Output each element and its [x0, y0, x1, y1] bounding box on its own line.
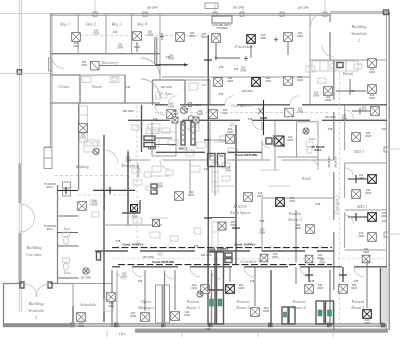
corridor1 door arc c: [290, 96, 299, 105]
to roof exh lav4: [311, 145, 325, 152]
svg-text:CFM: CFM: [351, 286, 358, 290]
svg-text:100 CFM: 100 CFM: [146, 6, 158, 10]
svg-text:CFM: CFM: [93, 32, 100, 36]
svg-text:4"Ø: 4"Ø: [316, 202, 321, 206]
exterior wall right: [386, 12, 389, 330]
svg-text:4"Ø: 4"Ø: [354, 279, 359, 283]
svg-text:MD 3: MD 3: [356, 204, 368, 209]
damper sym c: [274, 37, 278, 42]
duct cross tick a: [204, 59, 212, 61]
vestibule3 post a: [20, 282, 24, 288]
extra cfm r2 b: [122, 109, 134, 113]
wall x215 small: [214, 162, 216, 196]
clutter line f: [260, 169, 280, 171]
rooftop unit box: [205, 3, 218, 9]
break branch tick: [349, 79, 351, 88]
size note 3: [170, 143, 175, 147]
grid tick bottom c: [257, 330, 259, 337]
svg-text:CFM: CFM: [381, 214, 388, 218]
waiting label: [75, 164, 89, 169]
c3 door arc c: [244, 267, 254, 277]
cabinet pair d: [156, 285, 170, 323]
svg-text:CFM: CFM: [369, 70, 376, 74]
duct arrow right: [155, 63, 189, 66]
c3 door arc e: [354, 267, 364, 277]
wall x190 small: [189, 160, 191, 196]
svg-text:Manager: Manager: [137, 305, 154, 310]
size note 10: [310, 279, 315, 283]
dark wall reception west: [103, 135, 105, 322]
duct note 4ø a: [113, 30, 118, 34]
svg-text:CFM: CFM: [117, 46, 124, 50]
duct stub left b: [57, 232, 78, 234]
diffuser om top: [107, 293, 116, 302]
clutter equip o: [194, 228, 201, 234]
toilet center: [156, 92, 167, 99]
schedule east wall: [111, 270, 113, 327]
corridor2 dashes: [338, 62, 340, 330]
c4 room walls: [185, 80, 210, 105]
partition pr2 pr4: [270, 270, 272, 327]
svg-text:EXH.: EXH.: [314, 148, 321, 152]
clos label: [134, 210, 140, 214]
tstat corr1: [188, 103, 202, 107]
duct md branch: [348, 175, 367, 183]
cfm r2b: [265, 76, 272, 83]
column top 4: [240, 12, 244, 16]
dark box 266: [266, 138, 272, 144]
vert text ra: [327, 156, 331, 168]
md partition c: [345, 249, 387, 251]
vestibule3 east wall: [72, 284, 74, 328]
corridor2 east wall: [344, 105, 346, 248]
diffuser waiting lower: [78, 202, 87, 211]
clutter equip i: [152, 166, 161, 172]
svg-text:CFM: CFM: [184, 313, 191, 317]
cfm ma: [188, 190, 195, 197]
cfm bay4: [147, 30, 154, 37]
building corridor label: [26, 245, 42, 257]
recep scatter a: [132, 168, 140, 173]
diffuser work: [306, 225, 315, 234]
svg-text:4"Ø: 4"Ø: [204, 167, 209, 171]
size note 11: [354, 279, 359, 283]
pr4 label: [291, 299, 306, 310]
building corridor east wall: [57, 185, 59, 283]
svg-text:4"Ø: 4"Ø: [206, 327, 211, 331]
c4 fixture: [189, 83, 207, 90]
xtr cfm k: [121, 272, 128, 279]
svg-text:4"Ø: 4"Ø: [219, 92, 224, 96]
supply text vertical: [136, 162, 140, 177]
md partition b: [345, 209, 387, 211]
nurse walls: [80, 75, 125, 103]
cfm mdrc: [381, 211, 388, 218]
svg-text:100 CFM: 100 CFM: [297, 6, 309, 10]
clutter equip s: [90, 200, 97, 205]
svg-text:4"Ø: 4"Ø: [350, 89, 355, 93]
cfm pr3 bottom: [184, 310, 191, 317]
waiting dashed line b: [78, 194, 130, 196]
diffuser corr1 slash: [285, 108, 294, 117]
svg-text:CFM: CFM: [272, 255, 279, 259]
equip rect a: [132, 125, 139, 130]
recovery label: [101, 60, 118, 65]
bottom right wall: [384, 270, 386, 324]
svg-text:DUCT: DUCT: [179, 147, 187, 151]
bay 3 label: [111, 22, 122, 27]
grid line horizontal lower: [0, 72, 51, 74]
svg-text:Procedure: Procedure: [234, 44, 253, 49]
grid tick top b: [214, 3, 216, 13]
clutter line d: [214, 185, 236, 187]
svg-text:CFM: CFM: [358, 234, 365, 238]
cfm proc2: [260, 33, 267, 40]
svg-text:4"Ø: 4"Ø: [113, 30, 118, 34]
storefront mullion 1: [70, 323, 75, 328]
svg-text:Schedule: Schedule: [80, 302, 96, 307]
extra cfm r2 f: [142, 255, 154, 259]
thermostat a: [230, 122, 234, 127]
bay partition 2: [105, 14, 107, 54]
diffuser proc 2: [247, 35, 256, 44]
cfm r2a: [227, 76, 234, 83]
vestibule2 door arc: [311, 14, 322, 25]
size note 9: [250, 279, 255, 283]
diffuser bay1: [72, 33, 81, 42]
cfm r2c: [297, 75, 304, 82]
cond supply label b: [234, 243, 255, 247]
clutter equip j: [166, 170, 173, 175]
ma counters b: [212, 222, 218, 247]
svg-text:CFM: CFM: [227, 130, 234, 134]
toilet lav2: [63, 258, 70, 270]
svg-text:CFM: CFM: [73, 44, 80, 48]
cfm pr3 top: [191, 283, 198, 290]
fan pr3: [197, 291, 203, 297]
duct tick 236b: [232, 227, 240, 229]
extra arc a: [160, 160, 169, 169]
fan circle b: [188, 116, 194, 122]
diffuser pr5: [276, 198, 285, 207]
cfm c3a: [272, 252, 279, 259]
recovery duct line: [99, 65, 160, 67]
c3 door arc d: [300, 267, 310, 277]
lav 1 label: [63, 226, 71, 231]
duct pr branch b: [339, 267, 347, 282]
grid tick top c: [242, 6, 244, 13]
svg-text:Patient: Patient: [351, 299, 365, 304]
corridor2 west wall: [333, 60, 335, 330]
cfm waiting upper: [80, 133, 87, 140]
ma us label: [230, 204, 251, 215]
grid tick top d: [324, 0, 326, 13]
fan symbol lav: [81, 268, 91, 280]
svg-text:CFM: CFM: [325, 98, 332, 102]
duct break: [336, 87, 366, 95]
cfm pr5: [289, 196, 296, 203]
thermostat b: [158, 251, 162, 256]
pr1 label: [350, 299, 365, 310]
wall y103: [51, 102, 160, 104]
diffuser recep area: [131, 205, 138, 212]
svg-text:SYSTEM: SYSTEM: [216, 26, 228, 30]
size note 14: [328, 127, 333, 131]
cfm break2: [369, 93, 376, 100]
svg-text:CFM: CFM: [240, 69, 247, 73]
svg-text:Corridor 2: Corridor 2: [335, 195, 340, 215]
pr5 label: [287, 211, 302, 222]
clutter equip h: [228, 148, 237, 153]
lav3 label: [308, 136, 316, 141]
svg-text:24x24 SA: 24x24 SA: [334, 156, 338, 168]
svg-text:Closet: Closet: [58, 84, 70, 89]
svg-text:Recovery: Recovery: [101, 60, 118, 65]
extra dark text a: [207, 247, 228, 251]
cfm om bottom: [130, 311, 137, 318]
cfm recovery: [81, 60, 88, 67]
svg-text:EXH.: EXH.: [47, 227, 54, 231]
svg-text:CFM: CFM: [259, 231, 266, 235]
cfm vest2: [369, 67, 376, 74]
xtr cfm c: [168, 54, 175, 61]
cabinet pair b: [316, 301, 334, 324]
nurse label: [91, 84, 103, 89]
diffuser r2 b: [252, 78, 261, 87]
duct om drop: [144, 270, 146, 311]
diffuser pr4 top: [305, 285, 314, 294]
clutter equip n: [170, 236, 178, 241]
svg-text:4"Ø: 4"Ø: [116, 239, 121, 243]
cabinet pair c: [282, 307, 295, 324]
grid tick bottom b: [181, 330, 183, 337]
vestibule3 bottom wall dark: [3, 324, 75, 327]
reception label: [120, 163, 139, 168]
corridor3 north wall: [95, 250, 334, 252]
diffuser recovery: [90, 61, 99, 70]
bay partition 3: [131, 14, 133, 54]
diffuser md1 mid: [352, 133, 361, 142]
storefront mullion 2: [114, 323, 119, 328]
xtr cfm b: [117, 43, 124, 50]
right wall lower band: [382, 268, 388, 324]
right wall lower dark: [380, 268, 382, 324]
vestibule3 post b: [48, 282, 52, 288]
cfm proc lav: [189, 31, 196, 38]
partition pr3 pr2: [211, 270, 213, 327]
dark note duct: [179, 147, 187, 151]
svg-text:CFM: CFM: [297, 34, 304, 38]
damper sym a: [160, 33, 164, 40]
corridor pilaster a: [63, 182, 71, 188]
cfm mid139: [227, 127, 234, 134]
extra arc b: [262, 140, 270, 148]
cfm c3b: [317, 253, 324, 260]
stray cfm 1: [297, 6, 309, 10]
svg-text:CFM: CFM: [78, 324, 85, 328]
svg-text:Room 2: Room 2: [235, 305, 250, 310]
extra 4o b: [184, 107, 189, 111]
toilet lav1: [63, 232, 70, 244]
cfm ma2: [257, 191, 264, 198]
diffuser waiting upper: [79, 124, 88, 133]
svg-text:4"Ø: 4"Ø: [250, 279, 255, 283]
svg-text:4"Ø: 4"Ø: [126, 85, 131, 89]
diffuser c3 c: [362, 255, 370, 263]
clutter equip a: [148, 124, 160, 130]
vestibule3 north wall b: [50, 283, 73, 285]
clutter equip k: [190, 166, 200, 172]
small dif b: [193, 117, 199, 123]
small room walls center: [152, 122, 176, 156]
corridor1 centerline: [155, 112, 330, 114]
svg-text:CFM: CFM: [188, 193, 195, 197]
column right low: [384, 232, 389, 237]
lav 1 walls: [58, 216, 79, 246]
svg-text:Cond. RETURN: Cond. RETURN: [152, 260, 174, 264]
mx boxes: [225, 253, 232, 263]
cfm mdra: [358, 173, 365, 180]
grid tick bottom a: [106, 330, 108, 337]
cfm ma south: [230, 220, 237, 227]
diffuser mid139: [226, 135, 235, 144]
svg-text:100 CFM: 100 CFM: [200, 253, 212, 257]
cfm corr1a: [222, 108, 229, 115]
stray cfm 2: [146, 6, 158, 10]
center lav label: [165, 91, 173, 96]
svg-text:CFM: CFM: [125, 159, 132, 163]
md door arc c: [345, 215, 354, 224]
wall x160 v: [159, 54, 161, 80]
duct run waiting: [93, 189, 135, 191]
svg-text:Corridor 3: Corridor 3: [240, 259, 260, 264]
duct cross tick c: [204, 217, 212, 219]
svg-text:Patient: Patient: [292, 299, 306, 304]
column right mid: [384, 147, 389, 152]
cfm pr1 top: [351, 283, 358, 290]
label box a: [144, 136, 172, 140]
diffuser corr1 b: [167, 110, 176, 119]
grid tick right a: [390, 148, 400, 150]
diffuser c3 b: [305, 255, 313, 263]
duct branch a: [215, 44, 218, 61]
size note 8: [138, 279, 143, 283]
svg-text:Building: Building: [26, 245, 42, 250]
svg-text:Bay 4: Bay 4: [137, 22, 148, 27]
clutter equip b: [162, 128, 170, 133]
svg-text:200 CFM: 200 CFM: [122, 109, 134, 113]
svg-text:CFM: CFM: [230, 223, 237, 227]
corridor pilaster b: [63, 190, 71, 196]
bay 2 label: [86, 22, 97, 27]
svg-text:CFM: CFM: [295, 226, 302, 230]
clutter line g: [268, 185, 290, 187]
svg-text:Waiting: Waiting: [75, 164, 89, 169]
diffuser r2 c: [284, 77, 293, 86]
stray cfm 3: [232, 6, 244, 10]
center lav walls: [153, 80, 186, 105]
extra arc f: [212, 270, 221, 279]
svg-text:100: 100: [382, 219, 387, 223]
wall x275: [274, 121, 276, 170]
diffuser pr3 top: [201, 285, 210, 294]
cfm corr1b: [168, 102, 175, 109]
diffuser break 1: [324, 87, 333, 96]
riser pair low: [208, 252, 224, 290]
break counter ext: [337, 61, 358, 71]
pr5 north wall: [262, 197, 334, 199]
md door arc b: [345, 168, 354, 177]
svg-text:Bay 2: Bay 2: [86, 22, 97, 27]
wall x262 v: [261, 122, 263, 160]
svg-text:CFM: CFM: [369, 96, 376, 100]
svg-text:100: 100: [382, 127, 387, 131]
duct main vertical: [207, 35, 209, 283]
wall recep east dark: [141, 105, 143, 152]
vestibule2 west wall: [329, 14, 331, 60]
supply riser line: [136, 105, 138, 250]
exterior wall left: [50, 13, 52, 147]
arc corr mid: [155, 105, 165, 115]
svg-text:CFM: CFM: [263, 309, 270, 313]
diffuser proc lav: [176, 33, 185, 42]
pr5 west wall: [261, 198, 263, 251]
duct vert 263: [260, 100, 267, 135]
clutter equip p: [306, 66, 315, 72]
corridor1 door arc b: [225, 96, 234, 105]
diffuser schedule: [77, 313, 86, 322]
building corridor west wall upper: [19, 163, 20, 203]
svg-text:EXH.: EXH.: [47, 185, 54, 189]
extra arc c: [310, 160, 318, 168]
svg-text:CFM: CFM: [168, 105, 175, 109]
diffuser bay4: [133, 32, 142, 41]
wall y140 small: [210, 139, 236, 141]
lav3 walls: [277, 122, 318, 170]
cfm c3c: [363, 247, 370, 254]
office manager label: [137, 299, 154, 310]
column right top: [384, 10, 389, 15]
svg-text:CFM: CFM: [297, 78, 304, 82]
svg-text:CFM: CFM: [222, 111, 229, 115]
vert riser b: [191, 122, 195, 145]
grid marker: [17, 70, 21, 74]
door arcs three: [141, 58, 160, 98]
column top 1: [93, 12, 97, 16]
svg-text:Lav: Lav: [165, 91, 173, 96]
duct branch b: [250, 45, 252, 58]
damper sym b: [244, 56, 248, 61]
cfm midrow a: [287, 135, 294, 142]
corridor1 door arc e: [252, 120, 261, 129]
duct cross tick b: [204, 139, 212, 141]
svg-text:CFM: CFM: [191, 286, 198, 290]
cond return main: [118, 264, 332, 266]
duct 4o notes: [153, 65, 253, 121]
cfm bay1: [73, 41, 80, 48]
svg-text:Patient: Patient: [236, 299, 250, 304]
clutter equip e: [168, 140, 178, 145]
diffuser md r a: [368, 175, 377, 184]
size note 5: [280, 143, 285, 147]
cfm md1mid: [365, 131, 372, 138]
svg-text:100 CFM: 100 CFM: [232, 6, 244, 10]
recep scatter d: [146, 186, 153, 190]
waiting west wall: [78, 103, 80, 190]
svg-text:6"Ø: 6"Ø: [260, 219, 265, 223]
svg-text:CFM: CFM: [363, 250, 370, 254]
svg-text:100 CFM: 100 CFM: [160, 85, 172, 89]
